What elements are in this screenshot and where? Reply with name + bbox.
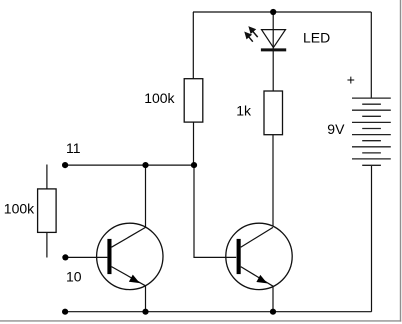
svg-text:10: 10 bbox=[66, 269, 82, 285]
svg-text:100k: 100k bbox=[4, 201, 35, 217]
svg-text:+: + bbox=[347, 72, 355, 88]
svg-text:9V: 9V bbox=[327, 121, 345, 137]
svg-text:LED: LED bbox=[303, 29, 330, 45]
svg-text:11: 11 bbox=[66, 140, 81, 156]
svg-text:100k: 100k bbox=[144, 90, 175, 106]
svg-text:1k: 1k bbox=[236, 103, 252, 119]
